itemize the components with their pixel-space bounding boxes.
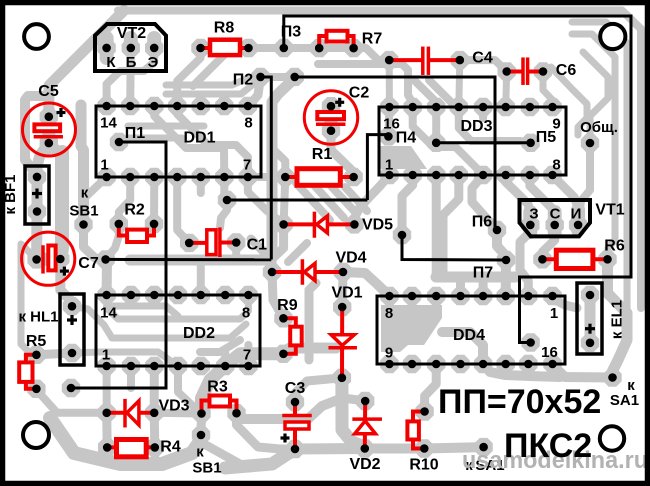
svg-text:VD4: VD4 bbox=[335, 250, 366, 267]
svg-text:к EL1: к EL1 bbox=[609, 300, 626, 339]
wire VD4r to VD1 bbox=[338, 272, 348, 307]
wire DD3.2 to node bbox=[402, 175, 413, 235]
svg-text:П4: П4 bbox=[396, 130, 417, 147]
svg-text:DD2: DD2 bbox=[183, 325, 215, 342]
svg-text:8: 8 bbox=[552, 157, 560, 174]
resistor R4 bbox=[107, 445, 155, 449]
wire VT1 Z to DD4 bbox=[520, 232, 530, 296]
electrolytic C7 bbox=[22, 232, 75, 285]
wire DD1.5 to C1 bbox=[177, 177, 189, 243]
wire DD1.10 stub bbox=[221, 94, 228, 106]
component hole pads bbox=[102, 102, 111, 111]
svg-text:R10: R10 bbox=[409, 457, 438, 474]
wire C7 left edge to R5 bbox=[21, 244, 37, 355]
wire R9 to R3 bbox=[202, 354, 284, 414]
wire DD3 to VT1 Z bbox=[506, 175, 531, 225]
wire band to DD3.15 bbox=[318, 64, 413, 107]
kEL1 plus bbox=[585, 327, 595, 330]
svg-text:SB1: SB1 bbox=[192, 460, 221, 477]
svg-text:П1: П1 bbox=[125, 125, 146, 142]
svg-text:И: И bbox=[571, 206, 582, 223]
C3 plus bbox=[281, 436, 290, 439]
svg-text:DD1: DD1 bbox=[183, 130, 215, 147]
svg-text:14: 14 bbox=[100, 115, 117, 132]
wire VD1 down band bbox=[342, 378, 362, 446]
svg-text:C6: C6 bbox=[556, 62, 577, 79]
wire DD3 int1 bbox=[413, 107, 483, 175]
resistor R10 bbox=[413, 412, 425, 422]
wire DD4 int to pin bbox=[442, 332, 483, 364]
connector kEL1 bbox=[577, 283, 602, 354]
svg-text:1: 1 bbox=[550, 305, 558, 322]
wire P2 down bbox=[261, 77, 272, 260]
svg-text:П5: П5 bbox=[536, 129, 557, 146]
wire C2- to R1 bbox=[331, 131, 354, 177]
electrolytic C2 bbox=[304, 91, 357, 144]
wire DD3.1 to VD5r bbox=[354, 175, 389, 224]
transistor VT2 outline bbox=[95, 24, 166, 71]
wire R2l to C7 node bbox=[106, 224, 119, 260]
wire DD3 to P6 bbox=[472, 175, 497, 230]
wire EL1 pads bbox=[585, 295, 596, 343]
diode VD1 bbox=[340, 307, 344, 378]
wire stripe2 bbox=[312, 183, 344, 218]
diode VD2 bbox=[363, 401, 367, 449]
wire R10 to SA1b bbox=[424, 447, 483, 448]
wire band to P2 bbox=[166, 78, 260, 85]
resistor R6 bbox=[542, 257, 607, 261]
mounting hole bottom-left bbox=[23, 422, 49, 448]
svg-text:R8: R8 bbox=[214, 20, 235, 37]
wire VT1 I strip bbox=[571, 210, 585, 230]
wire R3 to SB1 bbox=[197, 414, 207, 436]
svg-text:R7: R7 bbox=[362, 31, 383, 48]
resistor R5 bbox=[26, 355, 37, 363]
wire C5- to BF1 bbox=[37, 143, 49, 177]
wire VT2 E to DD1.14 bbox=[107, 48, 155, 106]
svg-text:VT1: VT1 bbox=[595, 202, 624, 219]
capacitor C4 bbox=[389, 58, 420, 62]
wire DD2 s2 bbox=[107, 295, 249, 319]
svg-text:VD3: VD3 bbox=[158, 398, 189, 415]
svg-text:SA1: SA1 bbox=[610, 392, 639, 409]
wire DD1.6 stub bbox=[220, 177, 228, 196]
svg-text:к: к bbox=[196, 444, 204, 461]
wire VT1 Z strip bbox=[523, 212, 537, 232]
resistor R8 bbox=[201, 46, 249, 50]
wire band to C7+ bbox=[60, 152, 62, 259]
wire node to C1 bar bbox=[220, 204, 227, 228]
svg-text:R5: R5 bbox=[26, 333, 47, 350]
wire HL1 to DD2 s3 bbox=[72, 306, 246, 338]
wire mid vertical bbox=[305, 290, 314, 360]
wire DD3.8 to VT1 I bbox=[553, 175, 579, 207]
wire R8/P3/R7 row bbox=[201, 44, 354, 52]
wire C7node to DD2.14 bbox=[102, 260, 112, 295]
svg-text:VT2: VT2 bbox=[117, 25, 146, 42]
svg-text:П6: П6 bbox=[472, 214, 493, 231]
wire VT2 K strip bbox=[100, 38, 114, 58]
wire DD4 stub1 bbox=[456, 277, 465, 296]
wire mid vertical top bbox=[309, 283, 316, 290]
wire DD1.11 stub bbox=[197, 94, 204, 106]
wire band to P2b bbox=[166, 82, 256, 94]
svg-text:16: 16 bbox=[541, 344, 558, 361]
wire C7 to HL1 bbox=[60, 259, 72, 306]
wire top/right ground band bbox=[118, 11, 641, 309]
svg-text:к: к bbox=[81, 185, 89, 202]
copper zone inside DD3 bbox=[379, 146, 427, 169]
wire DD1 int2 bbox=[177, 106, 248, 177]
wire bottom swoosh bbox=[50, 418, 201, 464]
wire C1r to band bbox=[232, 243, 240, 261]
svg-text:8: 8 bbox=[242, 305, 250, 322]
wire DD2 b1 bbox=[221, 352, 229, 366]
wire to C5+ bbox=[49, 11, 124, 117]
wire R7 to C4 bbox=[354, 48, 390, 60]
svg-text:VD5: VD5 bbox=[362, 217, 393, 234]
wire DD2 b2 bbox=[244, 345, 252, 366]
svg-text:C5: C5 bbox=[38, 83, 59, 100]
wire VD5 to VD4 bbox=[272, 224, 284, 272]
resistor R9 bbox=[283, 318, 295, 326]
svg-text:VD1: VD1 bbox=[331, 285, 362, 302]
svg-text:1: 1 bbox=[385, 157, 393, 174]
wire to P4 bbox=[367, 135, 388, 200]
wire VT2 B strip bbox=[124, 38, 138, 48]
wire band under P7 wire bbox=[130, 260, 272, 272]
svg-text:К: К bbox=[106, 54, 116, 71]
wire DD1.2 to R2 bbox=[119, 177, 130, 224]
svg-text:SB1: SB1 bbox=[69, 203, 98, 220]
wire R5 to HL1 bbox=[36, 353, 72, 355]
svg-text:R4: R4 bbox=[160, 439, 181, 456]
wire DD2.5 to R3 bbox=[178, 366, 202, 414]
wire diag DD3.14 bbox=[414, 80, 436, 107]
wire DD1.7 to R1 bbox=[248, 173, 285, 181]
diode VD3 bbox=[107, 411, 155, 415]
capacitor C1 bbox=[189, 241, 207, 245]
wire VD2- to R10 bbox=[365, 444, 425, 454]
wire stripe4 bbox=[345, 187, 367, 211]
svg-text:DD3: DD3 bbox=[460, 118, 492, 135]
wire C3 to SB1 band bbox=[225, 449, 295, 468]
resistor R2 bbox=[119, 224, 127, 236]
wire VD3r to R3l bbox=[154, 409, 201, 418]
wire P6 to P7 bbox=[497, 230, 506, 260]
wire stripe6 bbox=[251, 239, 268, 256]
svg-text:9: 9 bbox=[385, 345, 393, 362]
wire stripe1 bbox=[296, 183, 330, 220]
wire DD4.1 to EL1 bbox=[553, 299, 577, 308]
wire C2 pads bbox=[325, 106, 338, 131]
wire DD3.16 to P4 bbox=[388, 107, 389, 136]
svg-text:к HL1: к HL1 bbox=[18, 309, 58, 326]
svg-text:R3: R3 bbox=[207, 379, 228, 396]
wire C3 to VD1 bbox=[295, 378, 342, 402]
wire C5- band bbox=[49, 143, 62, 157]
svg-text:C1: C1 bbox=[247, 237, 268, 254]
wire DD1 band1 bbox=[128, 123, 204, 130]
wire R3r to C3- bbox=[237, 413, 296, 449]
wire diag to Obsh bbox=[583, 52, 608, 143]
wire BF1 to C7 bbox=[31, 177, 42, 260]
svg-text:C4: C4 bbox=[472, 50, 493, 67]
kHL1 plus bbox=[67, 318, 77, 321]
wire SB1 up bbox=[81, 105, 84, 225]
wire DD2.4 stub bbox=[197, 262, 205, 295]
svg-text:8: 8 bbox=[385, 305, 393, 322]
svg-text:П2: П2 bbox=[233, 72, 254, 89]
wire SB1 down band bbox=[201, 435, 240, 464]
wire C4r to DD3 pin bbox=[459, 60, 460, 107]
wire R4r down bbox=[151, 447, 159, 462]
IC DD1 bbox=[96, 106, 261, 177]
svg-text:R6: R6 bbox=[604, 237, 625, 254]
mounting hole bottom-right bbox=[600, 426, 624, 450]
wire stripe3 bbox=[330, 185, 356, 213]
wire HL1 to DD2 s4 bbox=[72, 352, 178, 366]
resistor R3 bbox=[202, 401, 210, 414]
svg-text:1: 1 bbox=[100, 157, 108, 174]
wire DD1.3 to R2r bbox=[150, 177, 158, 224]
wire C6 to DD3 pin bbox=[506, 72, 507, 108]
wire R4 down bbox=[103, 447, 111, 464]
wire band under DD4 bbox=[483, 364, 560, 377]
svg-text:ПП=70х52: ПП=70х52 bbox=[438, 383, 601, 421]
C5 plus bbox=[57, 111, 66, 114]
copper zone inside DD4 bbox=[381, 305, 442, 352]
wire DD4 top band bbox=[436, 272, 516, 283]
IC DD2 bbox=[96, 295, 260, 366]
wire DD1.4 stub bbox=[197, 177, 205, 193]
svg-text:З: З bbox=[529, 206, 538, 223]
IC DD4 bbox=[377, 296, 565, 364]
wire DD3 to DD4 v2 bbox=[443, 175, 459, 277]
C2 plus bbox=[335, 101, 344, 104]
svg-text:7: 7 bbox=[243, 347, 251, 364]
svg-text:1: 1 bbox=[102, 347, 110, 364]
wire DD1 band2 bbox=[128, 135, 182, 142]
wire R5 to VD3 bbox=[36, 389, 106, 413]
diode VD5 bbox=[284, 222, 355, 226]
kBF1 plus bbox=[32, 192, 42, 195]
wire C4 to DD3.16 bbox=[386, 60, 393, 107]
wire SA1 to DD4.16 bbox=[553, 365, 613, 378]
wire P1 long bbox=[71, 142, 166, 388]
wire VD4l to R9 bbox=[272, 272, 283, 318]
wire R9 to VD1 bar bbox=[283, 348, 336, 352]
wire stripe5 bbox=[288, 243, 307, 262]
wire DD3 to VT1 S bbox=[530, 175, 555, 225]
capacitor C6 bbox=[507, 70, 520, 74]
wire DD2.1 to VD3 bbox=[103, 366, 111, 413]
svg-text:C7: C7 bbox=[78, 255, 99, 272]
capacitor C3 bbox=[293, 402, 297, 414]
wire to R1 left bbox=[272, 148, 285, 177]
wire DD2 s1 bbox=[113, 306, 178, 316]
wire SB1 to C7 node bbox=[84, 225, 106, 260]
wire DD2 blob bbox=[200, 340, 240, 352]
svg-text:П7: П7 bbox=[473, 265, 494, 282]
transistor VT1 outline bbox=[520, 200, 591, 236]
wire VT2 B to DD1.13 bbox=[126, 48, 135, 106]
resistor R7 bbox=[319, 36, 326, 48]
pad octagons bbox=[97, 97, 115, 115]
wire C5 branch to BF1 bbox=[25, 96, 49, 177]
wire DD1 int1 bbox=[154, 106, 224, 177]
wire ring mid bbox=[572, 22, 627, 313]
wire DD3.12 stub bbox=[479, 107, 487, 118]
wire C3- to VD2- bbox=[295, 443, 365, 455]
wire R1 to VD5 bbox=[284, 177, 286, 224]
wire node row bbox=[227, 199, 367, 202]
wire VD3r to R4r bbox=[150, 413, 160, 448]
svg-text:Общ.: Общ. bbox=[580, 119, 618, 136]
svg-text:R2: R2 bbox=[124, 201, 145, 218]
wire P2 row bbox=[261, 73, 295, 81]
wire P2b to P6 bbox=[295, 77, 495, 230]
wire C6r to DD3.9 bbox=[543, 72, 553, 108]
diode VD4 bbox=[272, 270, 343, 274]
wire R8b diag bbox=[193, 55, 224, 86]
electrolytic C5 bbox=[23, 103, 76, 156]
wire P3 to DD4 bbox=[284, 16, 631, 343]
mounting hole top-right bbox=[600, 24, 625, 49]
wire band behind C3 bbox=[241, 399, 340, 419]
wire DD4.8 to VD4r bbox=[343, 272, 389, 296]
wire P7 to DD4 bbox=[501, 260, 511, 296]
C7 plus bbox=[60, 270, 69, 273]
svg-text:14: 14 bbox=[100, 305, 117, 322]
svg-text:8: 8 bbox=[244, 115, 252, 132]
wire C5 pads strip bbox=[42, 112, 55, 148]
wire DD3.14 to P5 bbox=[432, 107, 440, 143]
wire under P2 jumper bbox=[272, 78, 295, 255]
wire VT2 E strip bbox=[147, 38, 161, 48]
wire R10 to DD4 bbox=[425, 364, 437, 412]
wire diag C6 side bbox=[551, 67, 587, 135]
svg-text:DD4: DD4 bbox=[453, 327, 485, 344]
wire ring inner bbox=[572, 34, 615, 259]
wire diag DD3.13 bbox=[429, 80, 459, 107]
wire C4 to C6 bbox=[460, 60, 507, 71]
wire C7 node to P2 net bbox=[106, 258, 272, 261]
wire VT1 S strip bbox=[548, 212, 562, 232]
wire DD2.3 to VD3r bbox=[150, 366, 159, 413]
wire P2 to DD1.8 bbox=[248, 77, 261, 106]
wire VT1 S to R6 bbox=[542, 225, 554, 259]
svg-text:П3: П3 bbox=[281, 24, 302, 41]
wire R6r to SA1 bbox=[608, 259, 628, 377]
wire DD3 to DD4 v1 bbox=[432, 175, 441, 277]
svg-text:C3: C3 bbox=[285, 380, 306, 397]
wire DD3 int2 bbox=[459, 107, 531, 143]
wire VD3 to R4 bbox=[102, 413, 112, 448]
wire DD1.7 to VD5 bbox=[248, 177, 284, 224]
wire DD1.1 to SB1 bbox=[84, 177, 107, 199]
svg-text:С: С bbox=[550, 206, 561, 223]
connector kBF1 bbox=[25, 166, 49, 224]
mounting hole top-left bbox=[24, 24, 49, 49]
wire Obsh to VT1 I bbox=[578, 143, 590, 225]
wire DD2.2 stub bbox=[127, 366, 135, 388]
svg-text:7: 7 bbox=[243, 157, 251, 174]
IC DD3 bbox=[379, 107, 566, 175]
wire C7 pads strip bbox=[37, 253, 61, 266]
connector kHL1 bbox=[60, 294, 84, 365]
wire node to P7 bbox=[402, 235, 506, 260]
svg-text:Э: Э bbox=[148, 54, 159, 71]
svg-text:ПКС2: ПКС2 bbox=[504, 427, 592, 465]
svg-text:Б: Б bbox=[126, 54, 137, 71]
resistor R1 bbox=[285, 175, 354, 179]
svg-text:R9: R9 bbox=[277, 297, 298, 314]
wire R8 to DD1.12 bbox=[177, 48, 200, 106]
wire DD4 stub2 bbox=[479, 277, 488, 296]
svg-text:R1: R1 bbox=[312, 146, 333, 163]
wire to VD2 top bbox=[343, 398, 365, 401]
svg-text:VD2: VD2 bbox=[349, 456, 380, 473]
wire P5 bbox=[436, 141, 530, 144]
svg-text:C2: C2 bbox=[349, 85, 370, 102]
